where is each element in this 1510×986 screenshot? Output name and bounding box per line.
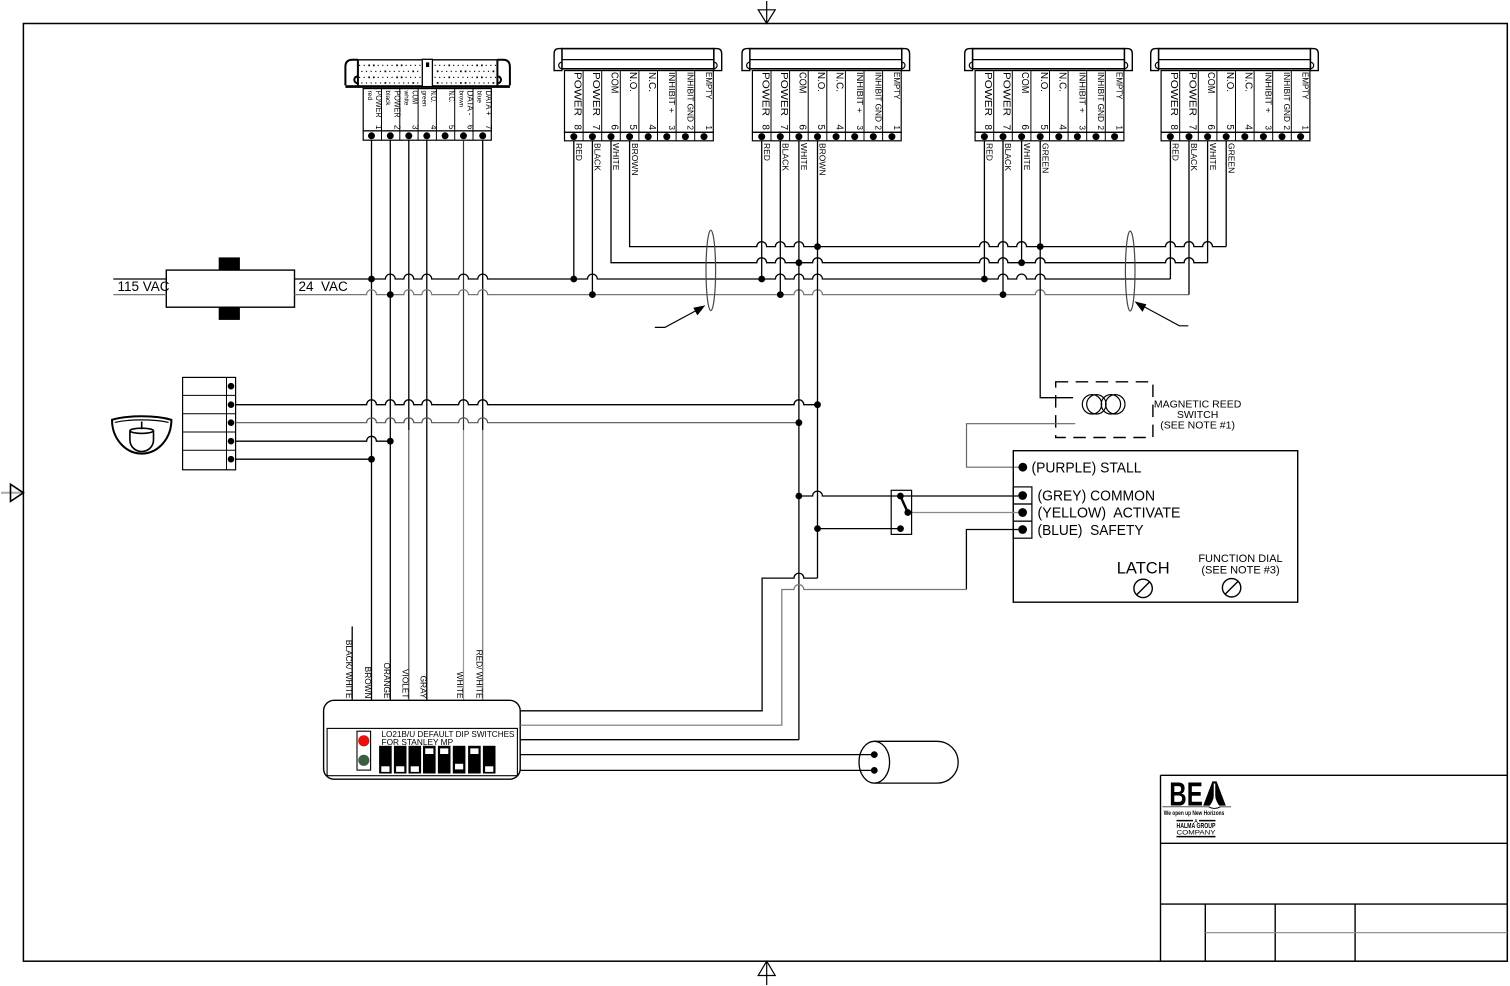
junction row3/white xyxy=(796,419,803,426)
HALMA group mark xyxy=(1177,819,1216,837)
strip terminal dot 1 xyxy=(228,383,235,390)
ribbon center key xyxy=(422,59,432,86)
junction COM rail sensor2 xyxy=(796,259,803,266)
wire white COM rail xyxy=(611,141,1208,263)
junction row4 xyxy=(387,438,394,445)
wire module out5 to antenna xyxy=(520,769,874,771)
junction white/common xyxy=(796,493,803,500)
magnetic reed switch (dashed) xyxy=(1056,382,1153,438)
sensor wire color labels xyxy=(574,143,1236,176)
wire sensor2 WHITE drop xyxy=(798,141,800,740)
top centering arrow xyxy=(758,1,775,24)
function dial potentiometer xyxy=(1222,579,1240,597)
wire module out1 (brown drop to module) xyxy=(520,573,817,711)
wire strip row5 xyxy=(236,458,372,460)
wire 115VAC line2 xyxy=(113,294,166,296)
green LED xyxy=(358,755,369,766)
door control ribbon connector J1 housing xyxy=(345,60,510,88)
door connector terminal row xyxy=(363,131,491,140)
LO21B/U inner panel xyxy=(327,728,517,775)
cable loop 1 xyxy=(706,230,716,310)
wire white COM3 / VIOLET xyxy=(408,140,410,430)
terminal purple stall xyxy=(1018,463,1027,472)
wire sensor4 BLACK xyxy=(1188,141,1190,295)
ribbon cable pin dots xyxy=(359,65,496,84)
wire blue DATA+7 / RED-WHITE xyxy=(482,140,484,430)
wire 24VAC bus line1 xyxy=(295,274,1171,279)
terminal cells xyxy=(1013,487,1032,538)
strip terminal dot 3 xyxy=(228,419,235,426)
wire red POWER1 / BROWN xyxy=(371,140,373,700)
red LED xyxy=(358,735,369,746)
harness wire color labels xyxy=(344,640,485,699)
sensor 4 (BEA detector) xyxy=(1151,49,1319,141)
SPDT NC contact xyxy=(897,525,904,532)
ceiling sensor icon xyxy=(112,416,171,453)
wire sensor4 RED xyxy=(1169,141,1171,279)
bottom centering arrow xyxy=(758,961,775,985)
door connector pin labels xyxy=(366,90,494,130)
SPDT blade xyxy=(900,496,907,513)
terminal blue safety xyxy=(1018,525,1027,534)
terminal yellow activate xyxy=(1018,508,1027,517)
wire 24VAC bus line2 (grey) xyxy=(295,290,1190,295)
wire blue safety (box side) xyxy=(966,530,1018,590)
sensor 1 (BEA detector) xyxy=(554,49,722,141)
wire sensor3 GREEN to reed switch xyxy=(1040,141,1073,398)
junction bus2 x390.3 xyxy=(387,291,394,298)
title block frame xyxy=(1161,775,1508,961)
junction bus1 x371.5 xyxy=(368,276,375,283)
wire module out3 (white drop to module) xyxy=(520,739,799,741)
wire sensor3 BLACK xyxy=(1002,141,1004,295)
cable loop 1 arrow xyxy=(655,306,704,327)
wire sensor3 RED xyxy=(983,141,985,279)
wire sensor2 BROWN drop xyxy=(817,141,819,578)
reed switch label xyxy=(1154,399,1242,432)
junction bus1 x984.4 xyxy=(981,276,988,283)
antenna pin2 xyxy=(871,767,878,774)
wire strip row2 to sensor brown xyxy=(236,400,818,405)
left centering arrow xyxy=(1,484,23,501)
wire strip row3 to sensor white xyxy=(236,418,799,423)
junction bus2 x780.3 xyxy=(777,291,784,298)
latch potentiometer xyxy=(1134,579,1152,597)
door connector terminal labels block xyxy=(363,89,491,131)
wire yellow activate xyxy=(908,512,1018,514)
sensor 2 (BEA detector) xyxy=(742,49,910,141)
wire green NO4 / GRAY xyxy=(426,140,428,700)
wire sensor1 RED xyxy=(573,141,575,279)
reed switch magnets xyxy=(1082,395,1125,414)
wire sensor1 BLACK xyxy=(591,141,593,295)
wire module out2 grey (blue safety) xyxy=(520,585,966,726)
wire sensor3 WHITE xyxy=(1021,141,1023,263)
junction NO rail sensor2 xyxy=(814,243,821,250)
strip terminal dot 5 xyxy=(228,456,235,463)
wire sensor2 RED xyxy=(761,141,763,279)
terminal grey common xyxy=(1018,491,1027,500)
sensor 3 (BEA detector) xyxy=(965,49,1133,141)
LO21B/U module body xyxy=(324,700,521,779)
antenna cylinder xyxy=(859,741,958,783)
LED window xyxy=(357,731,371,770)
wire module out4 to antenna xyxy=(520,754,874,756)
cable loop 2 arrow xyxy=(1136,302,1188,326)
SPDT pole contact xyxy=(904,509,911,516)
junction NO rail sensor3 xyxy=(1037,243,1044,250)
strip terminal dot 4 xyxy=(228,438,235,445)
SPDT switch box xyxy=(891,490,911,534)
junction bus1 x573.8 xyxy=(570,276,577,283)
door control box xyxy=(1013,451,1297,603)
module label xyxy=(382,729,515,747)
transformer T1 xyxy=(166,257,294,320)
wire brown/green N.O. rail xyxy=(630,141,1227,247)
junction row5 xyxy=(368,456,375,463)
junction row2/brown xyxy=(814,401,821,408)
wire common (white to grey common) xyxy=(799,491,1018,496)
BEA logo xyxy=(1162,776,1231,817)
junction bus1 x761.7 xyxy=(758,276,765,283)
cable loop 2 xyxy=(1125,231,1135,311)
antenna pin1 xyxy=(871,751,878,758)
wire strip row4 xyxy=(236,436,391,441)
strip terminal dot 2 xyxy=(228,401,235,408)
wire brown DATA-6 / WHITE xyxy=(463,140,465,430)
wire 115VAC line1 xyxy=(113,278,166,280)
wire BLACK/WHITE stub xyxy=(351,626,353,700)
SPDT common contact xyxy=(897,493,904,500)
junction COM rail sensor3 xyxy=(1018,259,1025,266)
junction bus2 x592.4 xyxy=(589,291,596,298)
door control terminal strip xyxy=(183,377,236,469)
wire sensor2 BLACK xyxy=(779,141,781,295)
wire reed to purple stall xyxy=(967,424,1076,468)
junction brown/NC xyxy=(814,525,821,532)
dip switches xyxy=(379,746,495,774)
wire brown to switch NC xyxy=(818,528,901,530)
wire black POWER2 / ORANGE xyxy=(389,140,391,700)
control box labels xyxy=(1032,459,1283,577)
junction bus2 x1003 xyxy=(1000,291,1007,298)
